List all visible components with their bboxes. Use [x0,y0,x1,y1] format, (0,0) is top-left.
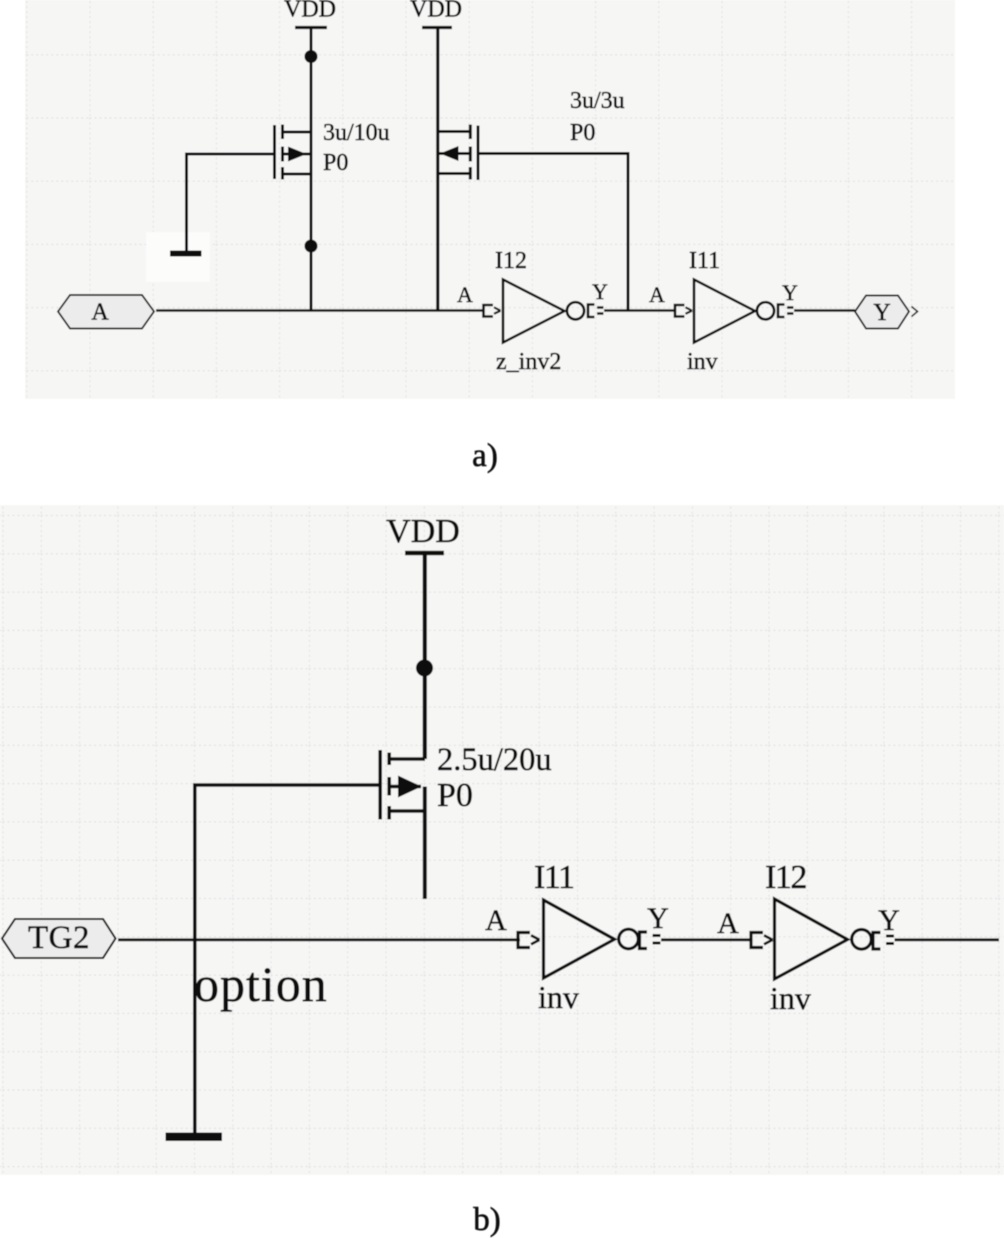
junction dot on VDD1 rail (lower) [305,240,318,253]
caption a) [472,438,498,474]
svg-text:inv: inv [770,980,811,1016]
white patch near ground (scan artifact) [146,232,210,282]
svg-text:I12: I12 [765,859,806,896]
ground symbol (figure b) [166,1133,223,1142]
svg-text:VDD: VDD [284,0,336,23]
instance label I12 [495,248,527,274]
svg-text:Y: Y [873,300,890,326]
VDD supply symbol 1 (bar) [295,26,327,29]
label 3u/3u of M2 [570,88,625,114]
input pin marker of I11 [675,305,692,317]
svg-text:a): a) [472,438,498,474]
svg-text:A: A [457,282,473,307]
output pin marker of I11 (figure b) [640,932,661,949]
figure a canvas background [25,0,955,399]
op-amp style inverter I12 (triangle) [503,280,584,343]
svg-text:Y: Y [647,902,669,935]
pin label A of inverter I12 (figure b) [717,907,739,940]
svg-text:P0: P0 [570,120,595,146]
figure b canvas background [0,505,1004,1175]
instance label I11 [689,248,720,274]
transistor M3 PMOS 2.5u/20u [380,750,426,820]
label 3u/10u of M1 [323,120,390,146]
pin label A of inverter I11 (figure b) [485,904,507,937]
pin label Y of inverter I12 (figure b) [878,904,900,937]
wire: M2 gate feedback to I12 output net [478,154,628,311]
junction dot on VDD1 rail (upper) [305,50,318,63]
cell label z_inv2 [496,349,561,375]
svg-text:P0: P0 [437,777,473,814]
transistor M1 PMOS 3u/10u [275,125,312,180]
label 2.5u/20u of M3 [437,742,552,778]
wire: M1 gate to ground [187,154,275,251]
inverter I11 (triangle) [694,280,774,343]
svg-text:A: A [485,904,507,937]
cell label inv [687,349,718,375]
wire: I11 output to I12 input (figure b) [661,938,752,941]
input pin marker of I12 (figure b) [751,933,773,948]
output pin marker of I11 [778,305,794,318]
label P0 of M3 [437,777,473,814]
svg-text:P0: P0 [323,150,348,176]
wire: M3 gate to ground (option leg) [195,785,380,1133]
input pin marker of I12 [484,305,501,317]
svg-text:I12: I12 [495,248,527,274]
pin label Y of inverter I12 [592,279,608,304]
pin label A of inverter I11 [649,282,665,307]
wire: net TG2 from port to inverter I11 input [118,938,520,941]
VDD supply symbol (figure b, label) [386,513,460,550]
svg-text:A: A [717,907,739,940]
output pin marker of I12 (figure b) [873,933,894,950]
pin label Y of inverter I11 (figure b) [647,902,669,935]
port Y (output pin) [855,296,918,329]
VDD supply symbol (figure b, bar) [405,551,444,556]
svg-text:b): b) [473,1202,501,1238]
port A (input pin) [58,295,154,329]
svg-text:TG2: TG2 [28,920,90,956]
port TG2 (input pin) [2,919,116,958]
VDD supply symbol 2 (bar) [422,26,452,29]
VDD supply symbol 2 (label) [410,0,462,23]
inverter I12 figure b (triangle) [775,899,872,979]
wire: VDD2 rail down to input net [436,28,439,311]
svg-text:2.5u/20u: 2.5u/20u [437,742,552,778]
svg-text:A: A [649,282,665,307]
output pin marker of I12 [588,305,604,318]
instance label I12 (figure b) [765,859,806,896]
svg-text:option: option [194,956,328,1012]
wire: I11 output to port Y [794,309,855,312]
junction dot on VDD rail (figure b) [416,660,433,677]
cell label inv (figure b right) [770,980,811,1016]
wire: I12 output to right edge (figure b) [895,938,1000,941]
svg-text:z_inv2: z_inv2 [496,349,561,375]
svg-text:inv: inv [687,349,718,375]
caption b) [473,1202,501,1238]
svg-text:VDD: VDD [410,0,462,23]
svg-text:I11: I11 [534,859,574,896]
wire: VDD1 rail down to input net [310,28,313,311]
svg-text:A: A [91,300,109,326]
instance label I11 (figure b) [534,859,574,896]
transistor M2 PMOS 3u/3u (mirrored) [438,125,478,181]
wire: M3 drain stub going down (open) [423,787,427,900]
inverter I11 figure b (triangle) [544,900,639,978]
label P0 of M2 [570,120,595,146]
pin label A of inverter I12 [457,282,473,307]
cell label inv (figure b left) [538,979,579,1015]
svg-text:I11: I11 [689,248,720,274]
VDD supply symbol 1 (label) [284,0,336,23]
svg-text:Y: Y [592,279,608,304]
label P0 of M1 [323,150,348,176]
svg-text:3u/3u: 3u/3u [570,88,625,114]
svg-text:3u/10u: 3u/10u [323,120,390,146]
wire: net A from port to inverter I12 input [156,309,483,312]
svg-text:Y: Y [782,280,798,305]
svg-text:Y: Y [878,904,900,937]
pin label Y of inverter I11 [782,280,798,305]
svg-text:inv: inv [538,979,579,1015]
input pin marker of I11 (figure b) [518,933,540,948]
text option [194,956,328,1012]
ground symbol (figure a) [170,251,202,257]
wire: VDD rail down to transistor source [423,553,427,759]
wire: I12 output to I11 input [604,309,675,312]
svg-text:VDD: VDD [386,513,460,550]
